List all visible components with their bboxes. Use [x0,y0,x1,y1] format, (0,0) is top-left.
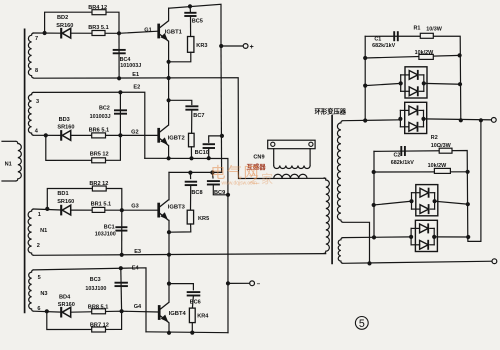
diode BD1 [61,205,70,216]
wire BD3 to G2 gate [71,134,158,136]
node E3-BC1 junction [120,253,124,257]
label IGBT4 [169,311,187,317]
wire secondary1 top to module2 [343,119,400,122]
svg-text:G3: G3 [131,204,138,210]
ring transformer primary [324,178,330,254]
resistor BR2 [92,186,106,191]
svg-text:BR2 12: BR2 12 [89,181,108,187]
wire N1 primary top lead [2,140,16,142]
label G3 [131,204,138,210]
svg-text:N1: N1 [40,228,47,234]
resistor BR7 [92,327,106,332]
label BR7 12 [90,322,109,328]
label R1 [414,26,421,32]
label SR160 (BD4) [58,302,75,308]
wire IGBT2 collector [168,78,170,125]
wire IGBT3 emitter [168,220,170,254]
node 10k right junction [458,53,462,57]
label BD1 [57,191,68,197]
wire IGBT3 collector [168,172,170,199]
svg-text:BC2: BC2 [99,105,110,111]
capacitor BC3 [115,283,128,286]
left rail rect2 [373,151,375,237]
transistor IGBT2 [159,125,169,146]
svg-text:BD2: BD2 [57,15,68,21]
svg-text:BD3: BD3 [59,117,70,123]
pin 8 [35,68,38,74]
wire C2-R2 branch [374,151,468,239]
svg-text:BC1: BC1 [104,224,115,230]
drive transformer core [24,29,26,314]
pin 1 [38,212,41,218]
diode BD2 [61,28,70,39]
svg-text:IGBT2: IGBT2 [168,136,185,142]
label BR2 12 [89,181,108,187]
label IGBT3 [168,205,186,211]
wire IGBT2 emitter [168,146,170,159]
diode module D2 [398,102,426,133]
label E2 [133,85,140,91]
resistor BR6 [92,133,106,138]
svg-text:N3: N3 [40,291,47,297]
watermark text 2 [248,171,274,186]
svg-text:BR4 12: BR4 12 [88,5,107,11]
svg-text:KR5: KR5 [198,216,209,222]
wire winding A pin7 to gate line [34,32,61,34]
capacitor BC10 top wire [209,136,222,142]
resistor BR4 [92,10,106,15]
resistor 10k/2W (top) [419,54,433,59]
wire rectifier output link [468,120,481,241]
wire 10k branch (bottom) [374,171,468,173]
diode BD4 [61,307,70,318]
node junction pin7 [43,31,47,35]
svg-text:IGBT3: IGBT3 [168,205,186,211]
label E4 [132,266,140,272]
label BC6 [190,299,201,305]
svg-text:BD1: BD1 [57,191,68,197]
ring transformer core [331,115,333,264]
svg-text:8: 8 [35,68,38,74]
node IGBT4 emitter junction [167,331,171,335]
node module4 right rail junction [466,235,470,239]
wire BR5 branch [46,135,121,160]
ring transformer secondary 1 [337,121,343,223]
label G1 [144,28,151,34]
resistor BR8 [92,309,106,314]
label + [250,44,254,51]
wire module1 right [424,82,460,85]
label BR8 5.1 [88,304,109,310]
svg-text:103J100: 103J100 [85,286,106,292]
watermark small [222,181,257,187]
node E1-BC4 junction [117,76,121,80]
svg-text:C1: C1 [374,37,381,43]
node pin4 junction [44,133,48,137]
wire IGBT4 collector [168,255,170,303]
node rect1 left rail bottom junction [363,118,367,122]
wire snubber to emitter rail [190,147,192,159]
wire IGBT4 emitter [168,323,170,333]
resistor BR1 [92,207,105,212]
pin 4 [35,128,39,134]
svg-text:5: 5 [359,318,365,330]
connector CN9 box [268,140,315,149]
node BC8 junction [188,171,192,175]
ring transformer secondary 2 [338,238,343,264]
svg-text:R1: R1 [414,26,421,32]
svg-text:BR5 12: BR5 12 [90,151,109,157]
resistor R2 [439,148,452,153]
svg-text:BC8: BC8 [191,190,202,196]
wire C1-R1 branch [365,36,461,120]
label IGBT1 [165,30,183,36]
node secondary2-left rail junction [372,235,376,239]
node IGBT2 emitter junction [167,156,171,160]
svg-text:5: 5 [38,275,41,281]
svg-text:N1: N1 [5,162,12,168]
label 10Ω/3W [431,143,452,149]
CN9 secondary right lead [309,149,311,166]
collector rail (IGBT3) [169,171,222,173]
CN9 secondary coil [274,166,310,169]
figure number circle 5 [355,317,368,331]
label - [257,281,261,288]
diode module D4 [409,220,437,251]
svg-text:www.dqjsw.com: www.dqjsw.com [222,181,257,187]
svg-text:3: 3 [36,99,39,105]
wire module1 left [365,83,401,85]
capacitor BC10 [203,144,215,148]
label BC4 [120,57,131,63]
svg-text:SR160: SR160 [57,125,74,131]
node output link junction [479,118,483,122]
wire winding D pin6 to gate [34,310,61,313]
capacitor BC9 bottom wire [213,185,228,195]
wire top rail [169,4,221,46]
node BC7 branch junction [167,98,171,102]
wire winding B pin4 to gate [34,134,61,136]
transistor IGBT4 [159,302,169,323]
label G2 [131,129,138,135]
label IGBT2 [168,136,185,142]
label BR1 5.1 [91,202,112,208]
svg-text:10/3W: 10/3W [426,27,442,33]
wire BD4 to G4 gate [71,311,158,312]
wire to - terminal [228,282,250,284]
capacitor BC9 [207,181,220,184]
pin 5 [38,275,41,281]
wire BC7 to resistor [191,110,193,134]
svg-text:E2: E2 [133,85,140,91]
capacitor BC10 bottom lead [208,148,210,158]
label BR4 12 [88,5,107,11]
svg-text:CN9: CN9 [253,155,264,161]
capacitor BC2 [114,110,127,113]
label 10k/2W (bottom) [428,163,447,169]
winding D N3 (pins 5-6) [29,270,34,311]
svg-text:BD4: BD4 [59,294,71,300]
node + terminal junction [219,44,223,48]
node 10k2 right junction [466,170,470,174]
winding A (pins 7-8) [28,33,33,78]
wire KR4 to emitter rail [191,323,193,333]
CN9 secondary left lead [273,149,275,166]
label E1 [132,72,139,78]
wire 10k branch (top) [365,55,459,58]
wire IGBT1 collector [168,8,170,21]
node module1 right rail junction [458,82,462,86]
svg-text:SR160: SR160 [57,199,74,205]
negative bus (E2 rail down) [145,158,228,332]
svg-text:2: 2 [37,243,40,249]
svg-text:E3: E3 [134,249,141,255]
node 10k left junction [363,56,367,60]
node KR4-rail junction [190,331,194,335]
label G4 [134,304,142,310]
svg-text:BC7: BC7 [193,113,204,119]
wire BR7 branch [47,311,122,329]
winding B (pins 3-4) [28,92,33,135]
resistor BR3 [92,31,105,36]
drive transformer primary winding N1 [16,141,22,181]
svg-text:BR1 5.1: BR1 5.1 [91,202,112,208]
node module1 left rail junction [363,84,367,88]
node E1-IGBT junction [167,76,171,80]
label BC3 [90,277,101,283]
label 互感器 [247,162,267,171]
terminal - (open circle) [250,281,255,286]
wire secondary2 top to module4 [343,236,411,239]
wire BC8 to KR5 [190,186,192,211]
node BC6 branch junction [167,282,171,286]
wire BC6 branch [169,284,193,290]
label N1 (primary) [5,162,12,168]
emitter rail (IGBT4) [146,331,228,334]
node module3 right rail junction [466,202,470,206]
label CN9 [253,155,264,161]
diode module D1 [399,67,427,98]
transistor IGBT3 [159,200,169,221]
node G4 junction [120,309,124,313]
svg-text:G2: G2 [131,129,138,135]
label BC9 [214,190,225,196]
wire BR4 branch [45,12,119,33]
capacitor BC6 [187,292,201,295]
capacitor BC8 [185,182,197,185]
capacitor BC5 top lead [189,6,191,12]
svg-text:BC6: BC6 [190,299,201,305]
node module3 left rail junction [372,203,376,207]
label BC1 [104,224,115,230]
label 环形变压器 [315,107,347,116]
CN9 terminal circle left [271,142,275,146]
node E2-BC2 junction [118,90,122,94]
pin 6 [37,306,40,312]
svg-text:G4: G4 [134,304,142,310]
capacitor BC2 lead [119,92,121,135]
node pin1 junction [45,207,49,211]
wire module4 right [434,236,468,238]
node BC5 top junction [188,4,192,8]
wire secondary1 bottom link [343,222,369,263]
node rect1 right rail bottom junction [459,118,463,122]
capacitor BC1 lead [121,210,123,255]
svg-text:E1: E1 [132,72,139,78]
label SR160 (BD2) [56,23,73,29]
wire KR3 bottom to emitter [169,52,191,62]
wire N1 primary bottom lead [2,180,16,182]
label 101003J (BC2) [90,114,111,120]
wire BD2 to G1 gate [71,31,158,33]
wire KR5 to emitter [169,224,191,232]
wire BD1 to G3 gate [71,209,158,211]
capacitor BC3 lead [120,268,123,311]
label BC10 [195,150,209,156]
node 10k2 left junction [372,170,376,174]
capacitor BC5 [184,13,196,16]
label R2 [431,135,438,141]
node G3 junction [120,208,124,212]
node BC9 junction [210,170,214,174]
label BR5 12 [90,151,109,157]
positive rail [220,46,223,172]
terminal center output (open circle) [492,259,497,264]
svg-text:682k/1kV: 682k/1kV [372,43,395,49]
label SR160 (BD3) [57,125,74,131]
resistor R1 [420,33,433,38]
diode BD3 [61,130,70,141]
svg-text:682k/1kV: 682k/1kV [391,160,414,166]
label 682k/1kV (C2) [391,160,414,166]
resistor KR5 [187,210,193,224]
wire BC6 to KR4 [192,296,193,308]
node E1 wire [34,78,326,179]
watermark text [211,165,261,182]
resistor BR5 [92,158,106,163]
label KR3 [196,43,207,49]
CN9 primary coil [274,174,307,178]
pin 7 [35,36,38,42]
node BC9-negative bus junction [226,193,230,197]
label BC2 [99,105,110,111]
label 10/3W [426,27,442,33]
node G2 junction [118,133,122,137]
node pin6 junction [45,309,49,313]
svg-text:10k/2W: 10k/2W [415,50,434,56]
svg-text:BC5: BC5 [192,19,203,25]
wire module3 right [435,201,468,204]
resistor 10k/2W (bottom) [434,168,450,173]
svg-text:C2: C2 [394,152,401,158]
label E3 [134,249,141,255]
wire module3 left [374,201,412,205]
node IGBT1 emitter junction [167,60,171,64]
svg-text:7: 7 [35,36,38,42]
svg-text:KR3: KR3 [196,43,207,49]
capacitor BC8 lead [189,173,191,179]
svg-text:1: 1 [38,212,41,218]
wire BC7 branch [169,100,192,104]
capacitor BC4 lead [118,33,120,78]
label KR5 [198,216,209,222]
label N1 (winding C) [40,228,47,234]
node E3-IGBT junction [167,253,171,257]
label BR3 5.1 [88,25,109,31]
node E4-BC3 junction [119,266,123,270]
svg-text:BR8 5.1: BR8 5.1 [88,304,109,310]
wire winding C pin1 to gate [34,209,61,210]
svg-text:10Ω/3W: 10Ω/3W [431,143,452,149]
label C1 [374,37,381,43]
wire IGBT1 emitter [168,41,170,78]
node - terminal junction [226,281,230,285]
left rail rect1 [364,36,366,120]
diode module D3 [409,185,437,216]
label BC7 [193,113,204,119]
svg-text:103J100: 103J100 [95,232,116,238]
label C2 [394,152,401,158]
pin 3 [36,99,39,105]
capacitor C2 [401,146,405,156]
label 103J100 (BC1) [95,232,116,238]
node secondary bottoms junction [367,261,371,265]
label 103J100 (BC3) [85,286,106,292]
svg-text:BR3 5.1: BR3 5.1 [88,25,109,31]
capacitor BC5 to KR3 lead [190,16,192,37]
resistor (IGBT2 snubber) [189,133,195,147]
svg-text:IGBT1: IGBT1 [165,30,183,36]
svg-text:E4: E4 [132,266,140,272]
terminal DC output + (open circle) [491,118,496,123]
node BC10-positive rail junction [220,134,224,138]
capacitor C1 [394,31,398,41]
wire module2 right to output [424,119,494,120]
svg-text:R2: R2 [431,135,438,141]
capacitor BC9 lead [211,173,214,179]
svg-text:BR6 5.1: BR6 5.1 [89,128,110,134]
svg-text:SR160: SR160 [56,23,73,29]
label BR6 5.1 [89,128,110,134]
node BC10-rail junction [207,156,211,160]
terminal + (open circle) [243,44,248,49]
svg-text:BC10: BC10 [195,150,209,156]
svg-text:+: + [250,44,254,51]
svg-text:环形变压器: 环形变压器 [315,107,347,116]
svg-text:BR7 12: BR7 12 [90,322,109,328]
label BD2 [57,15,68,21]
label BD4 [59,294,71,300]
svg-text:101003J: 101003J [120,63,141,69]
svg-text:10k/2W: 10k/2W [428,163,447,169]
node KR5-emitter junction [167,230,171,234]
capacitor BC1 [115,227,127,230]
label KR4 [197,314,209,320]
svg-text:SR160: SR160 [58,302,75,308]
node E3 wire [34,254,326,256]
pin 2 [37,243,40,249]
label 10k/2W (top) [415,50,434,56]
resistor KR4 [189,308,195,323]
wire center output [343,261,494,263]
label BC8 [191,190,202,196]
node snubber-rail junction [189,156,193,160]
wire BR2 branch [47,189,122,211]
label 101003J (BC4) [120,63,141,69]
svg-text:G1: G1 [144,28,151,34]
svg-text:IGBT4: IGBT4 [169,311,187,317]
label BC5 [192,19,203,25]
